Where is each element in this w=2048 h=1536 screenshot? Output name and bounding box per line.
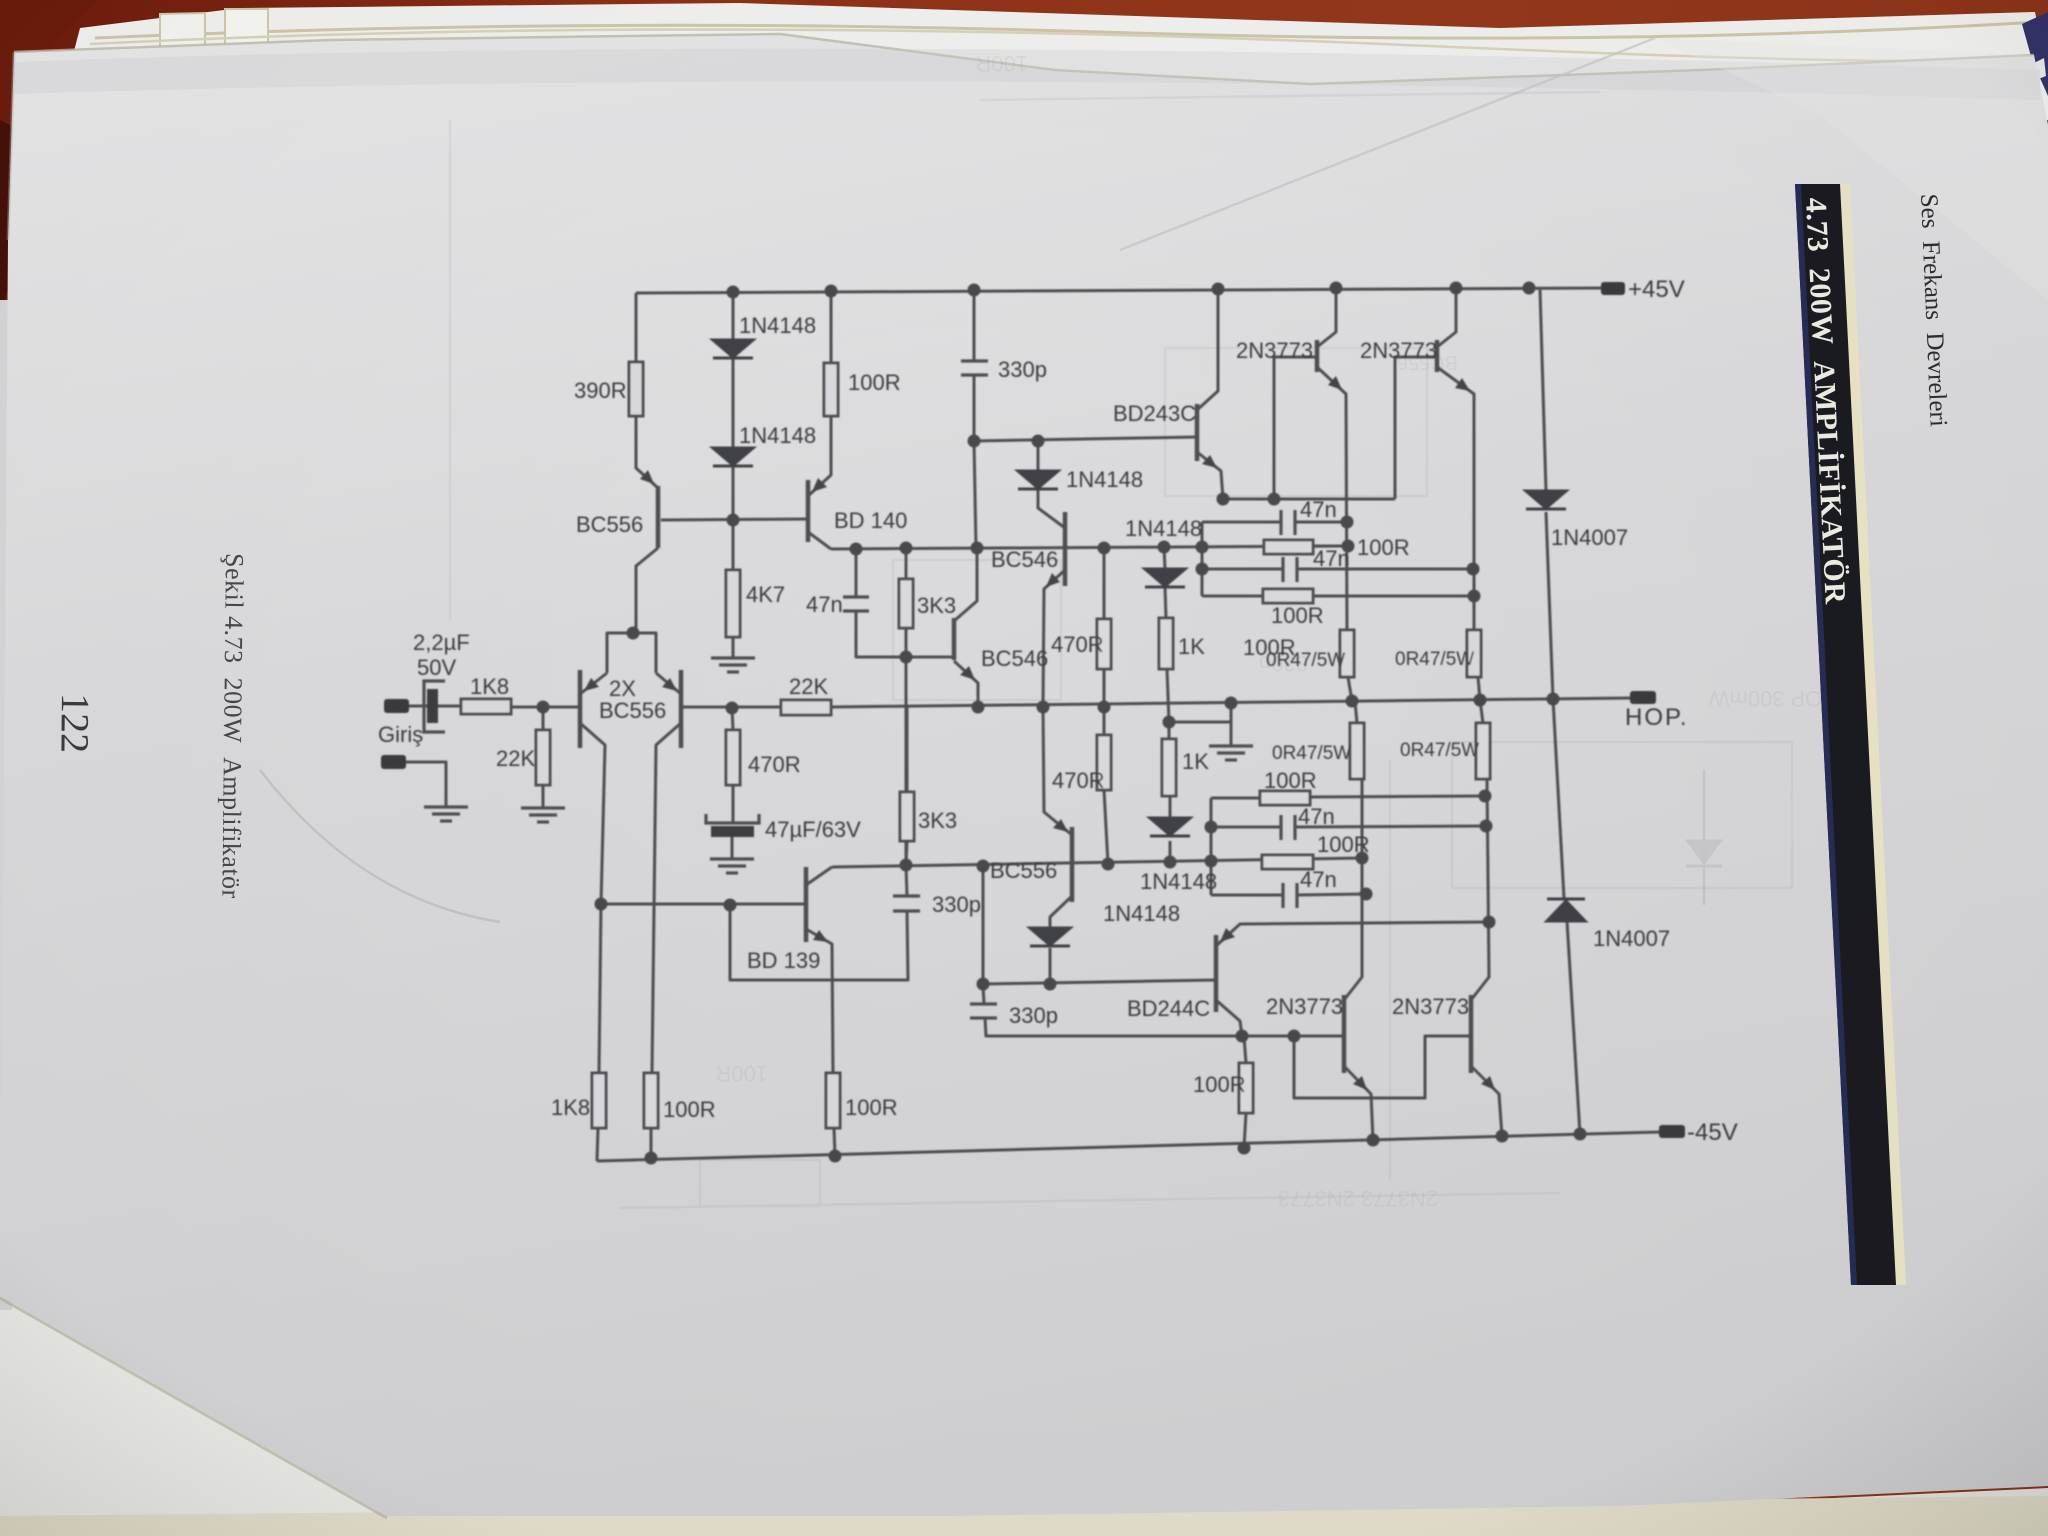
wire pair left collector [580,723,605,904]
resistor 0R47 d [1476,723,1490,779]
wire Q8 emitter [1471,1066,1502,1136]
wire 47n4 line right [1297,894,1366,895]
capacitor 47n 2 [1283,557,1297,582]
terminals [381,282,1685,1138]
wire 4K7 to ground [732,637,735,658]
node rail dots [727,286,740,299]
transistor Q4 BC546 lower [954,618,975,680]
diode 1N4148 D2b [1018,471,1058,489]
node pair emitter dot [627,627,640,640]
faint ghost diode right side [1686,770,1722,905]
capacitor 47n a [843,597,869,611]
resistor 470R a [726,730,740,785]
wire 1K b to D5 [1169,796,1172,818]
diode 1N4148 D1 [713,340,753,358]
transistor pair QR 2X BC556 right [662,670,681,748]
diode 1N4007 Db [1547,899,1585,921]
wire 330p b column [906,865,907,896]
wire 330p a column [973,290,976,361]
wire D3 to 1K a [1165,587,1166,618]
diode 1N4148 D2 [713,448,753,466]
transistor Q12 BD244C [1216,928,1235,1012]
wire right base of pair to 22K [681,706,781,709]
wire x1202 tie column [1201,522,1204,596]
transistor Q2 BD140 [808,478,827,542]
node lower ladder dots [1479,790,1492,803]
wire BC546 upper emitter [1043,570,1065,707]
wire Q5 base drop [1274,357,1317,499]
node lower drive line dots [1236,1030,1249,1043]
wire Q6 collector [1437,288,1456,347]
wire 1N4007 b column [1553,699,1564,898]
wire BC546 lower emitter to output line [954,661,978,707]
wire 47uF to ground [731,836,734,859]
resistor 0R47 b [1467,630,1481,677]
wire base line Q1-BD140 [661,519,808,520]
wire 1N4007 b to bottom rail [1567,921,1580,1134]
wire 330p c to lower drive line [985,1018,1242,1036]
wire Q7 emitter [1344,1066,1373,1140]
resistor 1K b [1162,739,1176,796]
node mid ground node [1163,716,1176,729]
resistor 100R top [824,363,838,416]
wire Q6 base drop [1395,357,1437,499]
wire output HOP line [543,706,579,709]
wire D3 column top [1164,547,1165,569]
resistor 1K8 input [461,699,511,714]
resistor 0R47 c [1350,723,1364,779]
wire 47n2 line right [1297,568,1473,571]
capacitor 47n 1 [1281,510,1295,535]
wire BD139 collector [806,867,832,885]
resistor 3K3 a [899,579,913,628]
node output line dots [537,701,550,714]
wire 100R c to bottom rail [650,1128,653,1158]
wire driver line to output bases [1223,498,1395,501]
page stack beneath [56,3,2048,120]
wire 0R47 a to output [1348,677,1352,701]
wire 47n3 line right [1295,826,1486,827]
wire between diodes D1-D2 [732,357,735,448]
resistor 470R b [1097,619,1111,669]
wire mid ground stub [1169,721,1231,724]
transistor Q8 2N3773 [1471,995,1495,1090]
resistor 100R 1 [1264,540,1313,554]
wire 0R47 d top [1480,700,1483,723]
transistor Q3 BC546 upper [1046,512,1065,587]
resistor 100R 4 [1262,855,1313,869]
wire 330p c column [983,984,984,1004]
wire 1K a to mid node [1167,669,1169,722]
wire BD244C emitter line [1216,922,1489,946]
node terminal HOP [1630,691,1656,704]
wire BC556 c collector to D4 [1050,896,1072,928]
diode 1N4007 Da [1526,491,1566,509]
wire lower bias line [832,858,1362,867]
wire 1K8 to bottom rail [597,1128,598,1161]
wire 470R a to 47uF [732,785,735,823]
wire D2b to BC546 upper collector [1038,489,1065,528]
wire junction down to BD139 collector line [905,657,908,865]
node BD244C base dots [977,978,990,991]
wire 47n a bottom to junction [856,611,906,657]
top-right corner fold crease [1120,38,1655,250]
resistor 1K8 bottom [592,1073,606,1128]
wire 0R47 c top [1355,701,1357,723]
transistor Q9 BC556 mid [1053,819,1072,902]
wire Q6 emitter column [1437,367,1474,634]
wire 330p a to line BD243C base [973,375,976,441]
wire pair common emitter [633,629,636,633]
capacitor 330p a [961,361,988,375]
wire 0R47 b to output [1478,677,1480,700]
wire 390R to BC556 Q1 emitter [636,416,658,488]
wire mid node to 1K b [1168,722,1171,739]
bottom under-page [0,1295,2048,1536]
wire 1K8 bottom column [599,904,601,1073]
wire upper bias line [831,546,1348,549]
wire bottom rail [597,1132,1661,1161]
wire 330p b to base loop [730,905,908,980]
wire D4 to BD244C base line [1049,948,1052,984]
node 3K3 junction [900,651,913,664]
wire lower drive line jog [1294,1036,1471,1098]
wire 47n1 line left [1202,521,1281,524]
wire 1N4007 a column [1540,290,1546,491]
ground under 47uF [710,859,754,873]
wire BC556 c base node down [982,866,985,984]
resistor 0R47 a [1340,630,1354,677]
node terminal Giris 2 [381,755,406,769]
resistor 100R 3 [1260,791,1310,805]
wire diode chain column top [732,292,735,340]
node lower bias line dots [900,859,913,872]
diode 1N4148 D3 [1145,569,1185,587]
resistor 3K3 b [900,792,914,841]
wire BC546 lower collector [954,548,977,621]
capacitor 2,2uF input [424,681,445,732]
wire BD244C base line [983,980,1216,984]
capacitor 330p b [893,896,920,911]
transistor Q10 BD139 [806,867,828,942]
wire D2 to base line [732,466,735,520]
wire column to upper bias line [974,441,976,548]
left page-curl line bottom-left [260,770,500,922]
wire pair right emitter diag [656,673,681,694]
resistor 470R c [1097,735,1111,790]
capacitor 47uF electrolytic [706,814,759,837]
wire +45V top rail [636,288,1605,293]
diode 1N4148 D4 [1030,928,1070,946]
resistor 100R e mid [1239,1063,1253,1113]
node upper bias line dots [850,543,863,556]
wire BD244C collector to drive line [1216,1000,1242,1036]
wire BD243C emitter [1197,452,1223,499]
wire 1N4007 a to output [1546,512,1553,699]
wire input cap to 1K8 [408,705,461,708]
ground input 2 [424,807,468,821]
wire Q5 collector [1317,288,1336,347]
transistor Q11 BD243C [1197,404,1217,468]
node BD139 base dots [595,898,608,911]
node base line Q1 [727,514,740,527]
wire 100R d to rail [834,1128,835,1156]
ground under 4K7 [711,658,755,672]
capacitor 330p c [970,1004,997,1018]
resistor 22K input gnd [536,730,550,785]
wire 100R1 line [1313,545,1348,548]
wire 470R c bottom [1104,790,1108,864]
wire 100R2 line left [1202,595,1263,598]
wire 22K gnd column [542,707,545,730]
resistor 100R 2 [1263,589,1313,603]
ground mid output [1209,746,1253,760]
wire 470R a column [732,708,733,730]
wire BD243C collector [1197,289,1218,410]
transistor pair QL 2X BC556 left [580,670,599,748]
wire Q7 collector column [1344,779,1362,1000]
resistor 390R [629,362,643,416]
wire 47n4 line left [1211,894,1283,897]
wire BD139 emitter column [806,929,833,1073]
resistor 100R c bottom [644,1073,658,1128]
wire 470R b bottom [1103,669,1106,707]
subtle fold shading top [14,49,2040,100]
wire 47n a column [855,549,858,597]
node terminal +45V [1601,282,1625,295]
wire 47n3 line left [1211,826,1281,829]
wire x1211 tie column lower [1210,798,1213,895]
wire D5 to lower bias line [1169,841,1172,862]
wire 47n2 line left [1202,568,1283,571]
ground under 22K input [521,808,565,822]
wire 100R3 line left [1211,797,1260,800]
node bottom rail dots [645,1152,658,1165]
transistor Q1 BC556 [640,470,658,548]
wire 100R3 line right [1310,796,1485,797]
wire 22K gnd bottom [542,785,545,808]
transistor Q6 2N3773 [1437,340,1470,391]
wire BD140 collector to bias line [808,532,831,549]
wire Q5 emitter column [1317,367,1347,630]
black title bar [1795,184,1906,1285]
wire junction to BC546 lower base [906,656,954,659]
node terminal -45V [1659,1125,1685,1138]
wire 47n1 line right [1295,521,1347,524]
wire 470R c column top [1103,707,1106,735]
wire input 2 stub [405,762,446,807]
node BD244C emitter line dot [1483,916,1496,929]
wire D2b column [1037,441,1040,471]
wire 100R e to rail [1244,1113,1246,1148]
wire Q1 collector down to pair [636,548,658,629]
capacitor 47n 4 [1283,883,1297,908]
wire ground drop from output line [1230,703,1233,746]
wire 3K3 b top [906,707,909,792]
ghost print (reverse side bleed-through) [450,92,1792,1208]
wire 3K3 a bottom to junction [905,628,908,657]
main page [0,300,12,1310]
transistor Q5 2N3773 [1317,340,1342,390]
wire 100R to BD140 emitter [808,416,831,496]
wire 3K3 a top [905,548,908,579]
wire 4K7 column [732,520,735,570]
transistors [580,340,1495,1090]
wire pair right collector [652,723,681,1073]
node terminal Giris 1 [384,699,409,713]
wire 470R b column top [1103,548,1106,619]
wire 22K to output node [831,698,1632,707]
wire pair left emitter diag [580,673,607,694]
resistor 4K7 [726,570,740,637]
resistor 1K a [1159,618,1173,669]
wire 100R top column [830,291,833,363]
resistor 100R d bottom [826,1073,840,1128]
wire 3K3 b bottom [906,841,907,865]
wire pair emitter yoke [607,633,656,673]
node 47n 100R ladder dots [1341,516,1354,529]
transistor Q7 2N3773 [1344,995,1367,1090]
grounds [424,658,1253,873]
wire left column from rail to 390R [635,293,638,362]
navy book edge top right [2022,12,2048,96]
wire Q7 base [1242,1035,1344,1038]
wire BD243C base line [974,437,1197,441]
wire 100R2 line right [1313,595,1474,598]
wire BC556 c emitter [1043,707,1072,835]
node BD243C base line dots [968,435,981,448]
wire BD139 base line [601,903,806,906]
wire Q8 collector column [1471,779,1489,1000]
diode 1N4148 D5 [1150,818,1190,836]
resistor 22K feedback [781,700,831,715]
wire 1K8 to bases [511,706,543,709]
capacitor 47n 3 [1281,815,1295,840]
node driver line dots [1217,493,1230,506]
wire 100R e column [1244,1037,1246,1063]
